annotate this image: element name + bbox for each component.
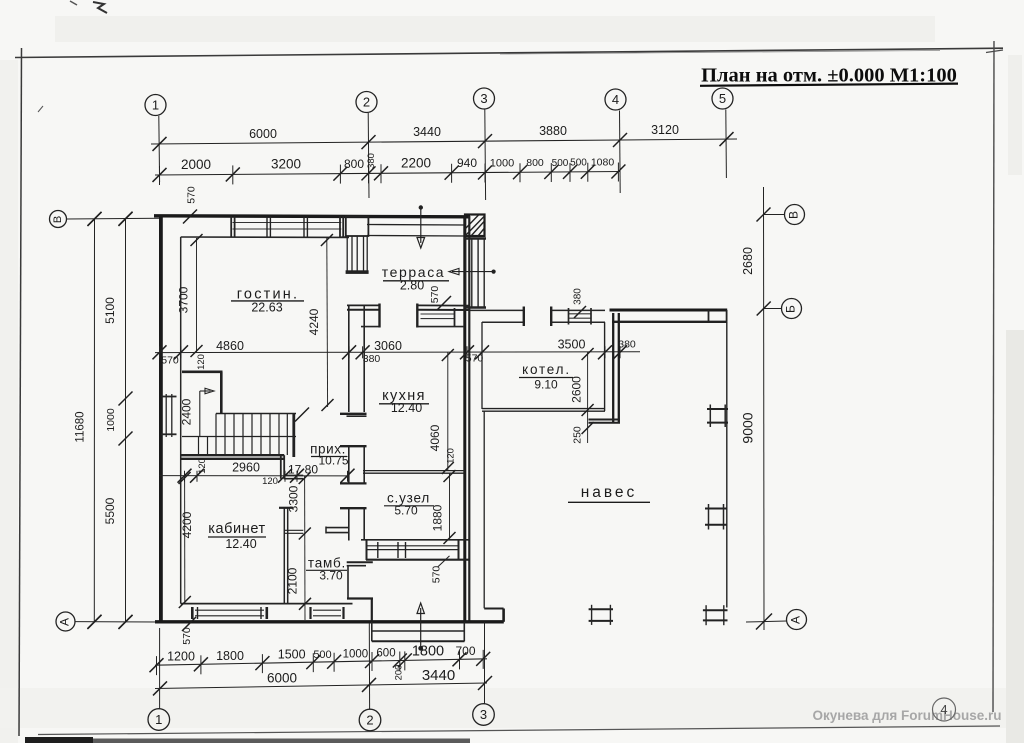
svg-text:6000: 6000 — [249, 127, 277, 141]
wall: bottom outer (axis А) — [155, 620, 504, 623]
svg-text:5.70: 5.70 — [394, 504, 418, 518]
drawing frame right border — [993, 41, 994, 712]
svg-text:600: 600 — [376, 648, 395, 660]
svg-text:3.70: 3.70 — [319, 569, 343, 583]
axis line 3 (bottom) — [484, 622, 486, 704]
axis circle Б (right) — [782, 299, 802, 319]
svg-text:2200: 2200 — [401, 155, 431, 170]
svg-text:22.63: 22.63 — [251, 301, 282, 315]
svg-text:11680: 11680 — [75, 411, 87, 442]
svg-text:1080: 1080 — [591, 156, 615, 168]
porch steps — [372, 630, 465, 632]
svg-text:3700: 3700 — [177, 286, 191, 313]
window кабинет (bottom wall) — [195, 609, 264, 611]
тамбур top wall — [284, 529, 303, 531]
column C1 (навес right upper) — [707, 408, 728, 410]
svg-text:5: 5 — [719, 91, 726, 106]
left dim line 11680 — [93, 219, 95, 622]
svg-text:2.80: 2.80 — [400, 279, 424, 293]
svg-text:570: 570 — [161, 355, 179, 367]
тамбур right wall and step to porch — [347, 561, 373, 563]
svg-text:А: А — [58, 618, 72, 626]
axis circle 5 (top) — [712, 88, 733, 109]
window: гостиная top, sill lines — [233, 222, 342, 224]
top dimension line 2000/3200/800/380/2200/940/1000/800/500/500/1080 — [155, 171, 620, 175]
svg-text:1800: 1800 — [216, 649, 244, 663]
axis line 2 (bottom) — [368, 623, 370, 709]
axis А line (left) — [75, 621, 160, 623]
svg-text:2960: 2960 — [232, 461, 260, 475]
svg-text:В: В — [52, 216, 64, 223]
axis circle 2 (bottom) — [359, 709, 381, 731]
svg-text:3060: 3060 — [374, 339, 402, 353]
svg-text:4: 4 — [940, 702, 947, 717]
wall: top inner line гостиная — [181, 236, 349, 238]
axis circle 1 (top) — [145, 95, 166, 116]
svg-text:380: 380 — [618, 339, 636, 351]
svg-text:1500: 1500 — [278, 648, 306, 662]
svg-text:навес: навес — [581, 484, 638, 501]
svg-text:570: 570 — [466, 353, 484, 365]
window: гостиная top, jambs and mullions — [230, 216, 232, 237]
svg-text:1200: 1200 — [167, 650, 195, 664]
left wall window — [165, 394, 167, 437]
svg-text:700: 700 — [455, 644, 475, 658]
svg-text:Окунева для ForumHouse.ru: Окунева для ForumHouse.ru — [812, 708, 1001, 723]
svg-text:380: 380 — [366, 153, 377, 169]
wall: right outer (axis 3) — [463, 216, 466, 622]
svg-text:9000: 9000 — [740, 412, 756, 443]
svg-text:120: 120 — [262, 476, 278, 487]
svg-text:3: 3 — [480, 91, 487, 106]
svg-text:4060: 4060 — [428, 424, 442, 451]
window тамбур (bottom wall) — [313, 609, 341, 611]
svg-text:3440: 3440 — [413, 125, 441, 139]
right axis vertical line — [763, 187, 766, 630]
svg-text:6000: 6000 — [267, 670, 297, 685]
divider wall гостиная/терраса with window — [346, 217, 369, 237]
svg-text:570: 570 — [431, 566, 443, 584]
terrace entry arrow (top) — [419, 205, 423, 209]
column C4 (навес bottom right) — [703, 609, 728, 611]
drawing frame left border — [19, 48, 22, 736]
wall кабинет/тамбур (right of кабинет) — [283, 508, 285, 604]
axis circle В (left) — [50, 211, 67, 228]
svg-text:1000: 1000 — [343, 648, 369, 660]
svg-text:2680: 2680 — [741, 247, 755, 275]
svg-text:5100: 5100 — [103, 297, 117, 324]
котельная bottom wall — [482, 408, 605, 410]
svg-text:570: 570 — [186, 186, 198, 204]
wall: bottom inner line — [181, 603, 353, 605]
svg-text:500: 500 — [552, 158, 569, 169]
svg-text:9.10: 9.10 — [534, 378, 558, 392]
window band терраса right side — [464, 237, 486, 239]
svg-text:570: 570 — [429, 286, 441, 304]
axis line 5 (top) — [725, 110, 728, 179]
котельная inner left wall — [481, 322, 483, 409]
column C2 (навес right middle) — [705, 508, 728, 510]
svg-text:котел.: котел. — [522, 362, 571, 377]
axis circle 3 (bottom) — [473, 704, 495, 726]
svg-text:1880: 1880 — [431, 504, 445, 531]
left dim line 5100/1000/5500 — [125, 219, 127, 622]
dim 2600/250 vertical (котельная) — [587, 352, 589, 443]
stairs treads — [216, 413, 296, 415]
svg-text:1: 1 — [152, 98, 159, 113]
wall прихожая/с.узел horizontal y470-473 — [363, 470, 465, 472]
wall: top outer (axis В) — [154, 216, 470, 217]
котельная right wall thin — [604, 322, 606, 411]
с.узел bottom wall with window — [361, 539, 470, 541]
svg-text:2: 2 — [366, 713, 373, 728]
dim line y475 (120/2960/120/1780) — [160, 475, 348, 477]
svg-text:1800: 1800 — [412, 643, 444, 659]
axis line 2 (top) — [367, 113, 370, 198]
wall: left outer (axis 1) — [159, 215, 163, 623]
svg-text:2: 2 — [363, 95, 370, 110]
bottom dimension line 6000/3440 — [155, 683, 487, 689]
stairs direction arrow — [199, 391, 201, 437]
axis line 1 (top) — [158, 116, 161, 182]
top dimension line 6000/3440/3880/3120 — [151, 139, 737, 144]
svg-text:250: 250 — [572, 426, 584, 444]
axis circle А (left) — [56, 612, 75, 631]
svg-text:Б: Б — [784, 305, 798, 313]
drawing frame top border — [15, 48, 1003, 57]
axis circle А (right) — [787, 610, 807, 630]
axis circle 1 (bottom) — [148, 709, 170, 731]
svg-text:1000: 1000 — [490, 157, 514, 169]
svg-text:3200: 3200 — [271, 156, 301, 171]
svg-text:4240: 4240 — [307, 308, 321, 335]
wall below stairs (кабинет top) — [181, 454, 285, 456]
svg-text:800: 800 — [344, 157, 364, 171]
svg-text:кабинет: кабинет — [208, 521, 266, 537]
svg-text:3120: 3120 — [651, 123, 679, 137]
svg-text:120: 120 — [196, 354, 207, 370]
dim 1880 vertical (с.узел) — [449, 474, 451, 541]
svg-text:940: 940 — [457, 156, 477, 170]
терраса top band lines — [367, 224, 465, 227]
scan mark top-left — [93, 2, 107, 13]
axis В line (left) — [67, 217, 161, 220]
svg-text:3880: 3880 — [539, 124, 567, 138]
dim 3300/2100 vertical — [304, 476, 306, 620]
svg-text:3440: 3440 — [422, 667, 455, 684]
wall: left inner line — [180, 237, 182, 604]
навес right edge — [726, 322, 728, 608]
svg-text:380: 380 — [573, 288, 584, 305]
svg-text:1000: 1000 — [105, 408, 117, 432]
svg-text:12.40: 12.40 — [225, 537, 256, 551]
svg-text:1: 1 — [155, 712, 162, 727]
svg-text:3500: 3500 — [558, 338, 586, 352]
dimension line across house at y352 — [155, 351, 640, 354]
axis line 1 (bottom) — [159, 628, 161, 709]
svg-text:800: 800 — [526, 157, 544, 169]
svg-text:4860: 4860 — [216, 339, 244, 353]
навес left edge below котельная with footing — [483, 411, 485, 608]
wall прихожая/кухня (x348-365) — [348, 305, 350, 412]
svg-text:120: 120 — [197, 458, 208, 474]
svg-text:12.40: 12.40 — [391, 401, 422, 415]
hatched corner block терраса — [465, 215, 485, 237]
svg-text:2000: 2000 — [181, 157, 211, 172]
svg-text:200: 200 — [394, 665, 405, 681]
svg-text:5500: 5500 — [103, 497, 117, 524]
svg-text:380: 380 — [363, 353, 381, 365]
bottom dimension line 1200/1800/1500/500/1000/600/1800/700 — [155, 659, 487, 665]
котельная top wall with door and window — [470, 309, 524, 311]
axis circle 2 (top) — [356, 92, 377, 113]
page number circle 4 — [933, 698, 956, 721]
svg-text:А: А — [789, 616, 803, 624]
entrance arrow — [418, 646, 423, 651]
svg-text:120: 120 — [446, 448, 457, 464]
svg-text:500: 500 — [313, 649, 331, 661]
dim 3700 vertical (гостиная) — [196, 238, 198, 352]
svg-text:10.75: 10.75 — [318, 454, 348, 468]
dim 4200 vertical (кабинет) — [184, 476, 186, 604]
навес top edge double line — [610, 309, 728, 312]
wall pier between window and терраса divider — [341, 236, 349, 238]
axis line 4 (top) — [619, 111, 622, 194]
axis circle В (right) — [785, 205, 805, 225]
arrow to терраса label — [492, 270, 496, 274]
axis line 3 (top) — [484, 110, 487, 201]
svg-text:2400: 2400 — [180, 398, 194, 425]
svg-text:4: 4 — [612, 92, 619, 107]
svg-text:4200: 4200 — [180, 511, 194, 538]
svg-text:17 80: 17 80 — [288, 463, 318, 477]
навес left post (котельная outer wall) — [612, 313, 614, 423]
drawing frame bottom border — [38, 726, 1000, 735]
svg-text:2600: 2600 — [570, 376, 584, 403]
axis circle 3 (top) — [474, 88, 495, 109]
column C3 (навес bottom left) — [589, 608, 613, 610]
svg-text:3: 3 — [480, 707, 487, 722]
svg-text:В: В — [787, 211, 801, 219]
stairs landing walls — [182, 370, 223, 373]
svg-text:500: 500 — [570, 158, 587, 169]
window кухня top — [421, 313, 455, 315]
axis circle 4 (top) — [605, 89, 626, 110]
wall терраса/кухня with door and window — [347, 304, 380, 306]
dim 4240 vertical (гостиная) — [326, 238, 329, 407]
dim 4060 vertical (кухня) — [447, 353, 449, 471]
stairs right wall — [292, 413, 295, 457]
